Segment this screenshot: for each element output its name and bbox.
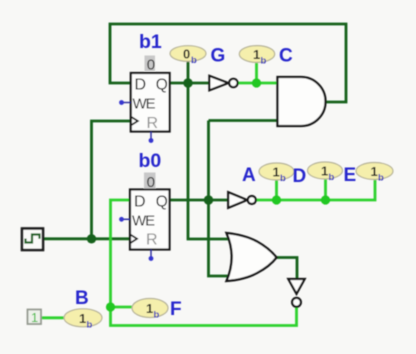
flip-flop b0 bottom unconnected stub bbox=[150, 250, 152, 258]
svg-text:Q: Q bbox=[156, 77, 168, 94]
svg-text:R: R bbox=[147, 115, 159, 132]
probe C oval bbox=[239, 46, 274, 63]
svg-text:WE: WE bbox=[132, 212, 155, 229]
svg-text:b: b bbox=[191, 55, 197, 66]
wire: b0.Q to inverter A bbox=[170, 199, 229, 202]
junction D node bbox=[272, 195, 281, 204]
svg-text:A: A bbox=[242, 165, 256, 186]
probe B oval bbox=[64, 309, 102, 327]
junction E node bbox=[321, 195, 330, 204]
svg-text:E: E bbox=[344, 165, 357, 186]
flip-flop b0 state box bbox=[144, 173, 156, 189]
probe oval after E bbox=[356, 163, 393, 180]
clock source bbox=[22, 229, 43, 251]
wire: probe G stub bbox=[187, 61, 190, 83]
svg-text:b: b bbox=[87, 320, 93, 331]
flip-flop b1 state box bbox=[145, 56, 156, 72]
svg-text:1: 1 bbox=[79, 311, 86, 326]
svg-text:1: 1 bbox=[146, 301, 153, 316]
svg-text:C: C bbox=[279, 46, 293, 67]
wire: probe F stub bbox=[111, 306, 133, 309]
svg-text:b: b bbox=[261, 56, 267, 67]
junction clock node bbox=[87, 234, 96, 243]
svg-text:1: 1 bbox=[253, 47, 260, 62]
wire: inverter A output with probes D,E bbox=[256, 180, 375, 201]
svg-text:Q: Q bbox=[156, 194, 168, 211]
svg-text:R: R bbox=[146, 232, 158, 249]
probe F oval bbox=[132, 299, 168, 318]
svg-text:b: b bbox=[378, 173, 384, 184]
wire: probe C stub bbox=[255, 63, 258, 84]
wire: b1.Q to inverter G bbox=[170, 82, 210, 85]
inverter G (U1) bbox=[209, 76, 228, 91]
wire: input pin B bbox=[40, 316, 65, 319]
OR gate bbox=[227, 233, 277, 281]
svg-text:b1: b1 bbox=[139, 31, 162, 53]
wire: b1.Q down to OR top input bbox=[188, 83, 229, 239]
svg-text:WE: WE bbox=[133, 96, 156, 113]
svg-text:0: 0 bbox=[147, 57, 155, 74]
svg-text:b: b bbox=[154, 310, 160, 321]
svg-text:D: D bbox=[135, 77, 147, 94]
junction b0.Q node bbox=[204, 195, 213, 204]
probe oval after A bbox=[259, 163, 294, 180]
svg-text:b0: b0 bbox=[139, 150, 162, 172]
svg-text:F: F bbox=[170, 299, 182, 320]
wire: b0.Q branch vertical to AND bottom input and OR bottom input bbox=[209, 121, 278, 277]
probe oval after D bbox=[308, 162, 343, 179]
flip-flop b1 clock triangle bbox=[131, 117, 138, 126]
down inverter (U3) bbox=[288, 279, 304, 294]
flip-flop b1 bottom unconnected stub bbox=[150, 132, 152, 140]
wire: inverter G output to AND top input bbox=[238, 82, 278, 85]
wire: OR output to down inverter bbox=[277, 258, 298, 280]
svg-text:D: D bbox=[293, 166, 307, 187]
svg-text:1: 1 bbox=[273, 165, 280, 180]
AND gate bbox=[278, 77, 326, 126]
junction b1.Q node bbox=[183, 78, 192, 87]
junction C node bbox=[252, 78, 261, 87]
svg-text:D: D bbox=[134, 194, 146, 211]
svg-text:1: 1 bbox=[371, 164, 378, 179]
svg-text:b: b bbox=[329, 172, 335, 183]
svg-text:B: B bbox=[75, 288, 89, 309]
probe G oval bbox=[170, 46, 206, 62]
flip-flop b0 WE unconnected stub bbox=[122, 218, 130, 220]
flip-flop b0 clock triangle bbox=[130, 234, 137, 243]
flip-flop b1 WE unconnected stub bbox=[122, 102, 131, 104]
flip-flop b1 body bbox=[131, 73, 170, 132]
wire: feedback AND output to b1.D bbox=[110, 24, 346, 102]
wire: down inverter output along bottom up to b0.D bbox=[111, 200, 297, 326]
flip-flop b0 body bbox=[130, 190, 170, 250]
inverter A (U2) bbox=[228, 192, 247, 208]
svg-text:0: 0 bbox=[147, 174, 155, 191]
input pin B bbox=[28, 310, 42, 325]
wire: clock to flip-flop clocks bbox=[43, 121, 130, 239]
svg-text:b: b bbox=[280, 173, 286, 184]
svg-text:1: 1 bbox=[321, 164, 328, 179]
svg-text:0: 0 bbox=[183, 47, 190, 62]
wire: probe E stub bbox=[324, 179, 327, 200]
svg-text:1: 1 bbox=[31, 310, 38, 325]
svg-text:G: G bbox=[211, 46, 226, 67]
junction F node bbox=[106, 302, 115, 311]
wire: probe D stub bbox=[275, 180, 278, 200]
